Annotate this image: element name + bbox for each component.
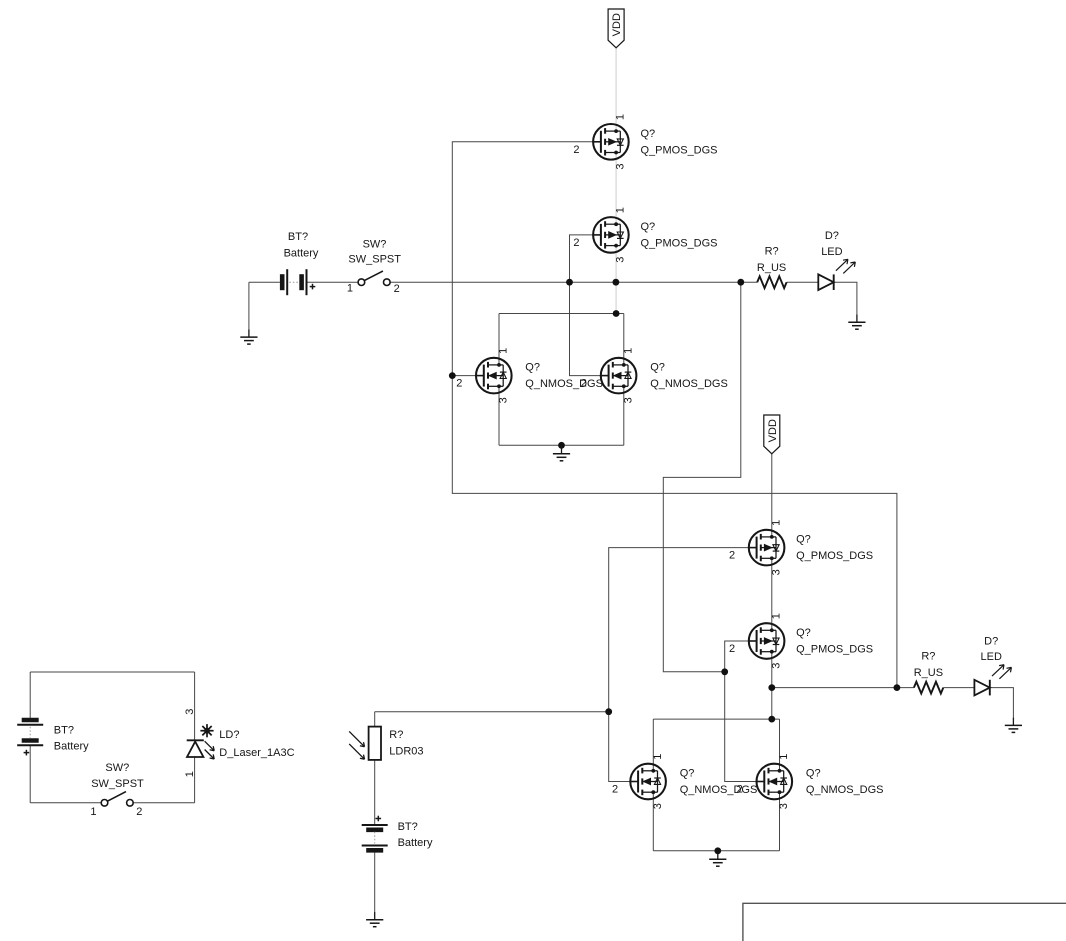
LED D2 — [974, 680, 989, 696]
wire output node to resistor R2 — [772, 687, 914, 689]
wire LED D2 cathode to ground — [990, 688, 1014, 718]
svg-text:Q_NMOS_DGS: Q_NMOS_DGS — [650, 378, 728, 390]
svg-text:3: 3 — [498, 397, 510, 403]
svg-text:2: 2 — [573, 144, 579, 156]
svg-text:BT?: BT? — [54, 725, 74, 737]
svg-text:D?: D? — [825, 230, 839, 242]
svg-text:LD?: LD? — [219, 729, 239, 741]
wire laser loop bottom right — [133, 802, 195, 804]
svg-text:SW?: SW? — [363, 239, 387, 251]
svg-text:SW_SPST: SW_SPST — [91, 778, 144, 790]
svg-text:Q?: Q? — [796, 627, 811, 639]
wire Q6 gate / Q8 gate — [725, 641, 757, 782]
wire NMOS pair drain bus (box1 top) — [499, 313, 624, 315]
svg-text:2: 2 — [456, 378, 462, 390]
wire battery BT1 left lead — [249, 281, 280, 283]
wire resistor R1 to LED D1 — [787, 281, 819, 283]
wire battery BT1 to switch SW1 — [307, 281, 359, 283]
junction feedback to output node — [894, 684, 901, 691]
junction LDR gate node — [605, 708, 612, 715]
svg-text:1: 1 — [347, 283, 353, 295]
LED D1 — [818, 274, 833, 290]
svg-text:1: 1 — [778, 754, 790, 760]
svg-text:3: 3 — [615, 163, 627, 169]
svg-text:2: 2 — [581, 378, 587, 390]
transistor Q4 Q_NMOS_DGS — [601, 358, 637, 394]
svg-text:1: 1 — [498, 348, 510, 354]
svg-text:2: 2 — [136, 806, 142, 818]
svg-text:Q?: Q? — [650, 362, 665, 374]
svg-text:1: 1 — [90, 806, 96, 818]
wire box2 right source drop — [779, 792, 781, 851]
wire box1 left drain drop — [498, 314, 500, 365]
wire box1 right source drop — [623, 386, 625, 445]
wire stage1 output to stage2 gates — [663, 282, 741, 672]
wire Q1 gate to feedback net — [452, 142, 897, 688]
svg-text:Battery: Battery — [284, 247, 319, 259]
transistor Q3 Q_NMOS_DGS — [476, 358, 512, 394]
wire battery BT2 to ground — [374, 851, 376, 912]
svg-text:R?: R? — [389, 729, 403, 741]
junction Q3 gate node — [449, 372, 456, 379]
wire LDR to gate net — [375, 711, 609, 713]
ground LED D2 — [1005, 718, 1022, 733]
junction box2 drain node — [768, 716, 775, 723]
wire Q6 source to output node — [771, 652, 773, 719]
switch SW2 SW_SPST — [101, 800, 108, 807]
photoresistor R3 LDR03 — [369, 727, 381, 760]
transistor Q2 Q_PMOS_DGS — [593, 217, 629, 253]
svg-text:Q?: Q? — [641, 128, 656, 140]
svg-text:1: 1 — [184, 771, 196, 777]
wire laser loop top — [30, 671, 194, 673]
svg-text:LED: LED — [980, 651, 1001, 663]
wire box2 left drain drop — [652, 719, 654, 771]
svg-text:1: 1 — [622, 348, 634, 354]
wire node to NMOS Q3 gate — [452, 375, 476, 377]
wire NMOS pair2 source bus (box2 bottom) — [653, 850, 779, 852]
junction Q6/Q8 gate node — [721, 668, 728, 675]
laser diode LD1 D_Laser_1A3C — [187, 739, 204, 741]
wire laser loop left upper — [29, 672, 31, 720]
wire LED D1 cathode to ground — [834, 282, 857, 314]
svg-text:1: 1 — [770, 613, 782, 619]
svg-text:BT?: BT? — [288, 231, 308, 243]
wire box2 right drain drop — [779, 719, 781, 771]
pin line Q1 source to Q2 drain (light) — [615, 153, 617, 225]
power pin VDD1 to Q1 drain (light pin line) — [615, 48, 617, 131]
pin line Q2 source through node to NMOS box (light) — [615, 246, 617, 314]
junction switch/Q2 gate node — [566, 279, 573, 286]
wire box1 right drain drop — [623, 314, 625, 365]
wire BT1 negative to ground — [248, 282, 250, 329]
battery BT1 — [280, 274, 285, 290]
svg-text:3: 3 — [652, 803, 664, 809]
svg-text:LED: LED — [821, 246, 842, 258]
svg-text:2: 2 — [394, 283, 400, 295]
svg-text:R_US: R_US — [914, 667, 943, 679]
transistor Q8 Q_NMOS_DGS — [757, 764, 793, 800]
ground NMOS pair 1 — [553, 446, 570, 461]
wire NMOS pair2 drain bus (box2 top) — [653, 718, 779, 720]
wire main node: switch SW1 to resistor R1 — [390, 281, 757, 283]
svg-text:D_Laser_1A3C: D_Laser_1A3C — [219, 747, 294, 759]
ground below BT1 — [240, 329, 257, 344]
ground battery BT2 — [366, 912, 383, 927]
wire laser loop bottom left — [30, 802, 101, 804]
svg-text:Q?: Q? — [525, 362, 540, 374]
resistor R2 R_US — [914, 682, 943, 694]
svg-text:2: 2 — [729, 643, 735, 655]
svg-text:D?: D? — [984, 636, 998, 648]
wire Q5 gate / Q7 gate / LDR net — [609, 548, 749, 782]
transistor Q7 Q_NMOS_DGS — [630, 764, 666, 800]
junction Q2 source node — [613, 279, 620, 286]
resistor R1 R_US — [757, 276, 786, 288]
svg-text:VDD: VDD — [611, 13, 623, 36]
svg-text:1: 1 — [615, 207, 627, 213]
wire LDR to battery BT2 — [374, 760, 376, 825]
svg-text:Q_PMOS_DGS: Q_PMOS_DGS — [796, 550, 873, 562]
junction stage2 output node — [768, 684, 775, 691]
svg-text:2: 2 — [612, 784, 618, 796]
battery BT2 — [362, 824, 388, 826]
power symbol VDD (top) — [608, 9, 624, 48]
svg-text:Q_NMOS_DGS: Q_NMOS_DGS — [806, 784, 884, 796]
svg-text:SW_SPST: SW_SPST — [348, 254, 401, 266]
power symbol VDD (stage 2) — [764, 415, 780, 454]
wire NMOS pair source bus (box1 bottom) — [499, 444, 624, 446]
svg-text:1: 1 — [652, 754, 664, 760]
wire LDR top lead — [374, 712, 376, 727]
svg-text:Q?: Q? — [641, 221, 656, 233]
junction box1 drain node — [613, 310, 620, 317]
battery BT3 — [22, 718, 39, 723]
transistor Q1 Q_PMOS_DGS — [593, 124, 629, 160]
ground LED D1 — [848, 314, 865, 329]
svg-text:Q_NMOS_DGS: Q_NMOS_DGS — [680, 784, 758, 796]
junction output to stage2 — [737, 279, 744, 286]
svg-text:3: 3 — [778, 803, 790, 809]
wire Q5 source to Q6 drain — [771, 558, 773, 630]
svg-text:Q_PMOS_DGS: Q_PMOS_DGS — [641, 144, 718, 156]
svg-text:3: 3 — [622, 397, 634, 403]
transistor Q5 Q_PMOS_DGS — [749, 530, 785, 566]
svg-text:R?: R? — [765, 245, 779, 257]
ground NMOS pair 2 — [709, 851, 726, 866]
wire laser loop left lower — [29, 746, 31, 803]
svg-text:LDR03: LDR03 — [389, 746, 423, 758]
svg-text:Q?: Q? — [806, 768, 821, 780]
transistor Q6 Q_PMOS_DGS — [749, 623, 785, 659]
svg-text:2: 2 — [737, 784, 743, 796]
svg-text:1: 1 — [770, 520, 782, 526]
svg-text:Battery: Battery — [54, 740, 89, 752]
svg-text:Q_NMOS_DGS: Q_NMOS_DGS — [525, 378, 603, 390]
svg-text:Q?: Q? — [796, 534, 811, 546]
svg-text:VDD: VDD — [767, 419, 779, 442]
svg-text:1: 1 — [615, 114, 627, 120]
wire box1 left source drop — [498, 386, 500, 445]
svg-text:SW?: SW? — [105, 762, 129, 774]
wire box2 left source drop — [652, 792, 654, 851]
svg-text:R_US: R_US — [757, 262, 786, 274]
junction box2 ground node — [714, 847, 721, 854]
wire Q2 gate down to main node and Q4 gate — [570, 235, 601, 376]
wire resistor R2 to LED D2 — [943, 687, 974, 689]
svg-text:3: 3 — [770, 569, 782, 575]
wire laser loop right lower — [194, 757, 196, 803]
svg-text:2: 2 — [573, 237, 579, 249]
wire laser loop right upper — [194, 672, 196, 740]
svg-text:R?: R? — [921, 651, 935, 663]
svg-text:Q_PMOS_DGS: Q_PMOS_DGS — [796, 644, 873, 656]
svg-text:BT?: BT? — [398, 821, 418, 833]
svg-text:3: 3 — [770, 663, 782, 669]
switch SW1 SW_SPST — [358, 279, 365, 286]
junction box1 ground node — [558, 442, 565, 449]
svg-text:2: 2 — [729, 550, 735, 562]
svg-text:Battery: Battery — [398, 837, 433, 849]
wire VDD2 to Q5 drain — [771, 454, 773, 537]
svg-text:3: 3 — [615, 257, 627, 263]
svg-text:Q_PMOS_DGS: Q_PMOS_DGS — [641, 237, 718, 249]
svg-text:3: 3 — [184, 709, 196, 715]
sheet frame corner — [743, 903, 1066, 941]
svg-text:Q?: Q? — [680, 768, 695, 780]
